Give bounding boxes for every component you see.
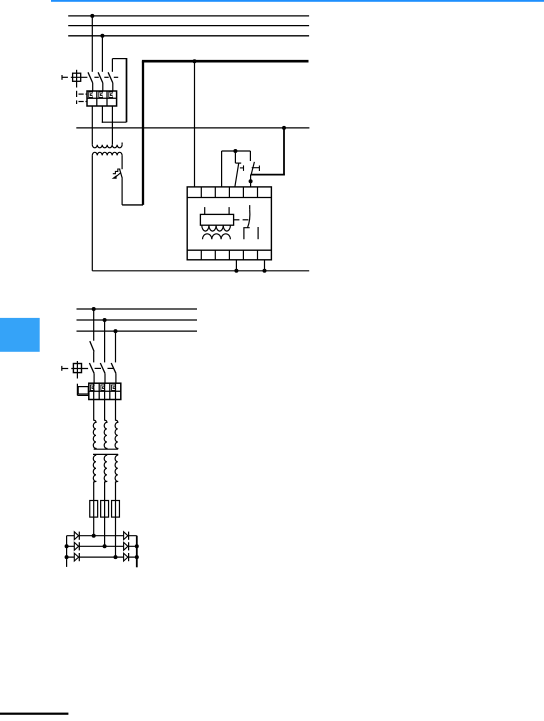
wire secondary left to bottom rail bbox=[91, 155, 93, 270]
node relay lead right on bottom rail bbox=[263, 269, 267, 273]
transformer T2 primary coil 3 bbox=[115, 383, 118, 449]
bus line L2 bbox=[68, 25, 309, 27]
wire loop pole2-output to pole3-input (left leg) bbox=[111, 59, 113, 72]
mechanical coupling dashes bbox=[95, 367, 101, 369]
transformer T1 secondary winding bbox=[92, 152, 122, 155]
node phase 3 into rectifier bbox=[114, 555, 118, 559]
wire pole 2 blade to thermal box bbox=[104, 373, 106, 383]
wire pole 3 blade to thermal box bbox=[112, 83, 114, 91]
breaker Q2 contact blade pole 3 bbox=[111, 363, 116, 373]
relay top terminal dividers bbox=[200, 187, 202, 198]
transformer T2 primary star bar bbox=[94, 448, 118, 450]
operator cross horizontal bbox=[71, 368, 88, 370]
thermal box horizontal divider bbox=[89, 390, 121, 392]
fuse F3 bbox=[112, 501, 120, 518]
thermal box horizontal divider bbox=[87, 97, 117, 99]
switch S2 actuator stem bbox=[252, 167, 260, 169]
operator handle stem bbox=[62, 76, 68, 78]
node tap L1 bbox=[92, 307, 96, 311]
transformer T2 primary coil 2 bbox=[104, 383, 107, 449]
switch S1 blade bbox=[235, 163, 239, 186]
wire breaker pole2 output bbox=[101, 106, 103, 123]
wire loop bottom bbox=[102, 121, 127, 123]
diode V5 (right) bbox=[124, 542, 128, 550]
relay output contact top lead bbox=[249, 205, 251, 210]
rectifier phase row 3 bbox=[67, 556, 137, 558]
wire drop L1 to isolating contact bbox=[93, 309, 95, 341]
node phase 2 into rectifier bbox=[103, 544, 107, 548]
switch S2 (NO) blade bbox=[251, 162, 254, 175]
breaker Q1 thermal-release box bbox=[87, 91, 117, 106]
wire loop right leg bbox=[126, 58, 128, 122]
relay output contact blade bbox=[248, 210, 250, 228]
operator cross horizontal bbox=[71, 76, 88, 78]
diode V1 (left) bbox=[74, 532, 78, 540]
wire pole 2 blade to thermal box bbox=[102, 83, 104, 91]
circuit breaker Q1 contact blade pole 2 bbox=[98, 72, 103, 83]
node tap L1 bbox=[90, 14, 94, 18]
trip linkage to aux box bbox=[77, 394, 88, 396]
relay coil body bbox=[200, 214, 233, 225]
trip linkage dash branch upper bbox=[79, 93, 84, 95]
mechanical coupling dashes to blades bbox=[94, 76, 98, 78]
circuit breaker Q1 contact blade pole 1 bbox=[88, 72, 93, 83]
thermal cutout blade bbox=[120, 169, 123, 179]
transformer T2 secondary star bar bbox=[93, 453, 118, 455]
breaker Q1 manual operator (crossed square) bbox=[73, 73, 81, 81]
thermal cutout actuator staircase bbox=[113, 169, 120, 174]
bus line L1 (lower diagram) bbox=[77, 308, 198, 310]
wire control loop right leg bbox=[249, 151, 251, 161]
isolating contact blade pole 1 bbox=[90, 341, 94, 351]
node DC+ rail row 3 bbox=[135, 555, 139, 559]
wire pole 3 box to transformer bbox=[111, 106, 113, 145]
switch S1 contact bar bbox=[235, 162, 241, 164]
node DC- rail row 2 bbox=[65, 544, 69, 548]
wire secondary right to thermal cutout bbox=[121, 155, 123, 169]
relay coil supply lead right bbox=[228, 207, 230, 214]
transformer T1 primary tap stub bbox=[121, 143, 123, 145]
wire relay terminal to bottom rail (right) bbox=[264, 260, 266, 271]
wire corner to feeder riser bbox=[122, 204, 143, 206]
wire cutout to corner bbox=[121, 178, 123, 205]
operator cross vertical bbox=[76, 361, 78, 379]
relay bottom terminal dividers bbox=[200, 250, 202, 260]
node tap L3 bbox=[100, 34, 104, 38]
thermal box pole divider 2 bbox=[106, 91, 108, 106]
transformer T2 secondary coil 2 bbox=[104, 455, 107, 500]
switch S1 actuator stem bbox=[240, 167, 244, 169]
trip linkage dashed vertical bbox=[76, 91, 78, 97]
transformer T2 secondary coil 3 bbox=[115, 455, 118, 500]
wire S2 to relay terminal bbox=[250, 175, 252, 187]
switch S1 (NC) top lead bbox=[234, 151, 236, 163]
wire control branch vertical bbox=[283, 128, 285, 175]
thermal box pole divider 1 bbox=[98, 383, 100, 399]
node DC- rail row 3 bbox=[65, 555, 69, 559]
wire loop top bbox=[112, 58, 126, 60]
node control loop bbox=[233, 149, 237, 153]
relay internal winding upper bbox=[202, 225, 231, 231]
wire pole 1 blade to thermal box bbox=[92, 83, 94, 91]
relay output contact fixed bar bbox=[257, 227, 259, 239]
bus line L1 bbox=[68, 15, 309, 17]
transformer T2 primary coil 1 bbox=[93, 383, 96, 449]
relay mechanical link dashes bbox=[234, 219, 240, 221]
wire drop L2 to breaker Q2 bbox=[104, 320, 106, 362]
switch S1 actuator bar bbox=[243, 165, 245, 171]
rectifier DC- rail bbox=[66, 536, 68, 567]
relay output contact hook lead bbox=[244, 228, 250, 240]
node phase 1 into rectifier bbox=[92, 534, 96, 538]
breaker Q2 thermal-release box bbox=[89, 383, 121, 399]
fuse F2 bbox=[101, 501, 109, 518]
node on separation line bbox=[282, 126, 286, 130]
wire through fuse 3 bbox=[115, 501, 117, 558]
wire pole 1 blade to thermal box bbox=[93, 373, 95, 383]
trip linkage dash branch lower bbox=[79, 101, 84, 103]
wire feeder tap to relay terminal A1 bbox=[194, 61, 196, 187]
bus line L3 (lower diagram) bbox=[77, 330, 198, 332]
operator handle T-bar bbox=[61, 366, 63, 371]
footer rule bbox=[0, 713, 68, 715]
node feeder tap bbox=[193, 59, 197, 63]
bus line L3 bbox=[68, 35, 309, 37]
separation line bbox=[76, 127, 309, 129]
relay internal winding lower bbox=[203, 234, 231, 240]
wire drop L3 to breaker Q2 bbox=[115, 331, 117, 362]
wire control loop left leg to relay bbox=[221, 151, 223, 187]
operator cross vertical bbox=[76, 70, 78, 88]
diode V2 (left) bbox=[74, 542, 78, 550]
relay U1 outline bbox=[187, 187, 271, 260]
operator handle stem bbox=[62, 368, 68, 370]
thermal cutout trip arrow shaft bbox=[116, 173, 121, 177]
wire drop L3 to breaker pole 2 bbox=[101, 36, 103, 72]
blue chapter tab bbox=[0, 318, 40, 352]
thermal element pole 1 bbox=[90, 385, 94, 391]
operator handle T-bar bbox=[61, 75, 63, 80]
wire drop L1 to breaker pole 1 bbox=[91, 16, 93, 72]
relay top terminal strip line bbox=[187, 197, 271, 199]
thermal box pole divider 2 bbox=[109, 383, 111, 399]
thermal element pole 1 bbox=[89, 92, 93, 98]
wire isolating contact to breaker Q2 bbox=[93, 352, 95, 363]
switch S2 actuator bar bbox=[258, 166, 260, 172]
top blue rule bbox=[51, 0, 544, 2]
diode V4 (right) bbox=[124, 532, 128, 540]
feeder line (thick horizontal) bbox=[142, 60, 309, 63]
diode V6 (right) bbox=[124, 553, 128, 561]
breaker Q2 contact blade pole 1 bbox=[89, 363, 94, 373]
wire through fuse 1 bbox=[93, 501, 95, 536]
wire pole 3 blade to thermal box bbox=[115, 373, 117, 383]
thermal element pole 3 bbox=[109, 92, 113, 98]
node S2 lead bbox=[249, 179, 253, 183]
fuse F1 bbox=[90, 501, 98, 518]
relay bottom terminal strip line bbox=[187, 249, 271, 251]
feeder riser (thick) bbox=[142, 61, 144, 205]
breaker Q2 contact blade pole 2 bbox=[100, 363, 105, 373]
relay coil supply lead left bbox=[204, 207, 206, 214]
auxiliary trip block bbox=[78, 387, 88, 394]
thermal cutout trip arrow head bbox=[112, 175, 117, 179]
bus line L2 (lower diagram) bbox=[77, 319, 198, 321]
transformer T2 secondary coil 1 bbox=[93, 455, 96, 500]
node DC+ rail row 2 bbox=[135, 544, 139, 548]
node tap L3 bbox=[114, 329, 118, 333]
thermal element pole 2 bbox=[99, 92, 103, 98]
rectifier phase row 1 bbox=[67, 535, 137, 537]
thermal element pole 3 bbox=[112, 385, 116, 391]
node tap L2 bbox=[103, 318, 107, 322]
trip linkage down leg bbox=[76, 384, 78, 396]
diode V3 (left) bbox=[74, 553, 78, 561]
circuit breaker Q1 contact blade pole 3 bbox=[108, 72, 113, 83]
bottom rail bbox=[92, 270, 309, 272]
transformer T1 primary winding bbox=[92, 145, 122, 148]
rectifier DC+ rail (thick) bbox=[136, 536, 138, 568]
wire control branch horizontal bbox=[251, 174, 285, 176]
wire pole 1 box to transformer bbox=[91, 106, 93, 145]
wire control loop top bbox=[222, 150, 251, 152]
node relay lead left on bottom rail bbox=[234, 269, 238, 273]
thermal box pole divider 1 bbox=[96, 91, 98, 106]
thermal element pole 2 bbox=[101, 385, 105, 391]
rectifier phase row 2 bbox=[67, 545, 137, 547]
breaker Q2 manual operator (crossed square) bbox=[73, 364, 81, 373]
wire through fuse 2 bbox=[104, 501, 106, 547]
wire relay terminal to bottom rail (left) bbox=[235, 260, 237, 271]
